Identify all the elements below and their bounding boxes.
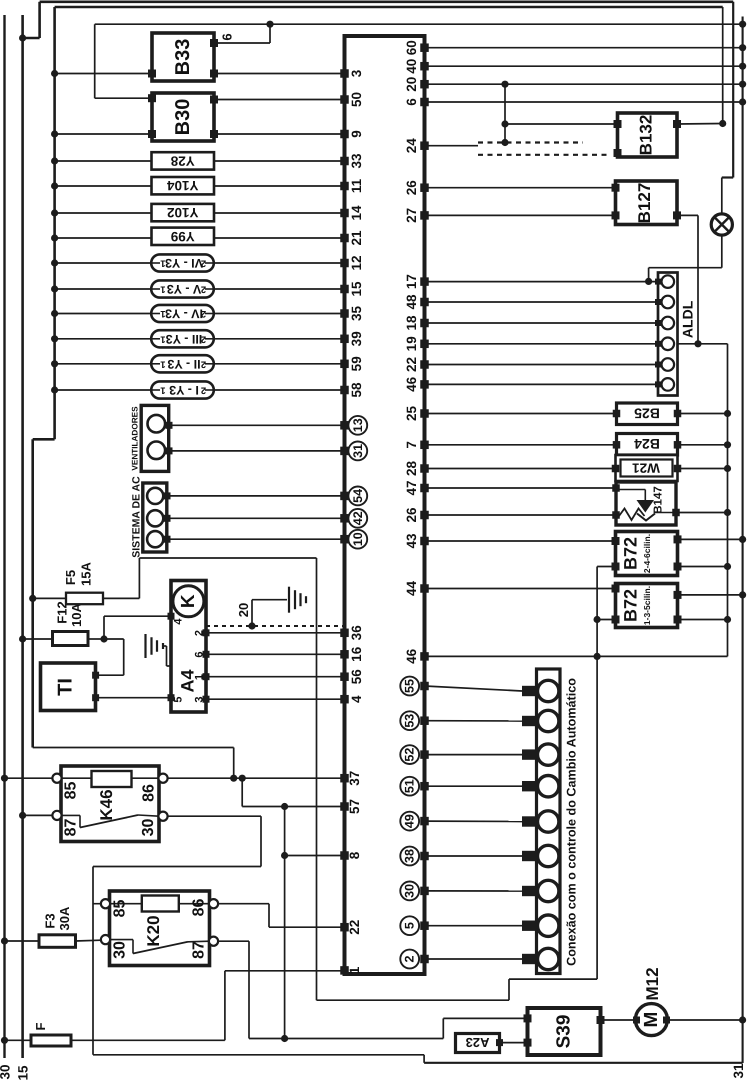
svg-text:22: 22 [347, 920, 362, 935]
svg-text:48: 48 [404, 294, 419, 310]
svg-text:Y104: Y104 [166, 178, 198, 193]
svg-text:M: M [641, 1012, 662, 1028]
svg-text:7: 7 [404, 441, 419, 449]
svg-text:K20: K20 [144, 915, 163, 946]
svg-text:53: 53 [403, 714, 417, 728]
svg-text:37: 37 [347, 771, 362, 786]
svg-text:20: 20 [404, 77, 419, 92]
svg-text:1: 1 [160, 358, 166, 369]
svg-text:51: 51 [403, 779, 417, 793]
svg-text:15A: 15A [79, 561, 94, 585]
svg-text:8: 8 [347, 851, 362, 859]
svg-text:14: 14 [349, 205, 364, 221]
svg-text:16: 16 [349, 646, 364, 662]
svg-text:B72: B72 [621, 589, 641, 622]
svg-text:44: 44 [404, 581, 419, 597]
svg-text:III - Y3: III - Y3 [166, 332, 203, 346]
svg-text:F5: F5 [63, 570, 78, 585]
svg-text:B30: B30 [172, 99, 194, 136]
svg-text:K: K [178, 594, 199, 608]
svg-text:19: 19 [404, 336, 419, 351]
svg-text:87: 87 [63, 819, 80, 837]
svg-text:47: 47 [404, 480, 419, 495]
svg-text:F3: F3 [43, 913, 58, 928]
svg-text:33: 33 [349, 153, 364, 169]
svg-text:52: 52 [403, 748, 417, 762]
svg-text:B132: B132 [637, 115, 656, 156]
svg-text:31: 31 [731, 1063, 746, 1079]
svg-text:1: 1 [160, 284, 166, 295]
svg-text:IV - Y3: IV - Y3 [165, 307, 203, 321]
svg-text:B72: B72 [621, 537, 641, 570]
svg-text:46: 46 [404, 648, 419, 664]
svg-text:15: 15 [349, 281, 364, 297]
svg-text:Conexão com o controle do Camb: Conexão com o controle do Cambio Automát… [565, 678, 579, 966]
svg-text:VENTILADORES: VENTILADORES [131, 406, 140, 471]
svg-text:13: 13 [351, 418, 365, 432]
svg-text:18: 18 [404, 315, 419, 331]
svg-text:43: 43 [404, 533, 419, 549]
svg-text:I - Y3: I - Y3 [169, 383, 199, 397]
svg-text:12: 12 [349, 255, 364, 270]
svg-text:2: 2 [201, 385, 206, 396]
svg-text:60: 60 [404, 40, 419, 55]
svg-text:3: 3 [349, 69, 364, 77]
svg-text:S39: S39 [554, 1015, 575, 1049]
svg-text:Y28: Y28 [170, 153, 195, 168]
svg-text:25: 25 [404, 406, 419, 422]
svg-text:15: 15 [16, 1065, 31, 1081]
svg-text:28: 28 [404, 461, 419, 477]
svg-text:54: 54 [351, 489, 365, 503]
svg-text:59: 59 [349, 356, 364, 371]
svg-text:30: 30 [0, 1064, 13, 1079]
svg-text:2: 2 [403, 955, 417, 962]
svg-text:55: 55 [403, 679, 417, 693]
svg-text:56: 56 [349, 669, 364, 685]
svg-text:A23: A23 [466, 1035, 490, 1050]
svg-text:TI: TI [55, 678, 77, 696]
svg-text:85: 85 [112, 900, 129, 918]
svg-text:4: 4 [349, 695, 364, 703]
svg-text:58: 58 [349, 382, 364, 398]
svg-text:39: 39 [349, 331, 364, 346]
svg-text:F: F [33, 1022, 48, 1030]
svg-text:26: 26 [404, 507, 419, 523]
svg-text:86: 86 [141, 784, 158, 802]
svg-text:M12: M12 [643, 967, 662, 1000]
svg-text:W21: W21 [632, 461, 660, 476]
svg-text:2: 2 [201, 333, 206, 344]
svg-text:B24: B24 [634, 436, 660, 452]
svg-text:2: 2 [201, 358, 206, 369]
svg-text:30: 30 [403, 884, 417, 898]
svg-text:6: 6 [404, 98, 419, 106]
svg-text:1: 1 [160, 308, 166, 319]
svg-text:20: 20 [236, 603, 251, 617]
svg-text:24: 24 [404, 138, 419, 154]
svg-text:1: 1 [347, 966, 362, 974]
svg-text:21: 21 [349, 230, 364, 246]
svg-text:B147: B147 [653, 486, 665, 514]
svg-text:1-3-5cilin.: 1-3-5cilin. [642, 586, 652, 625]
svg-text:36: 36 [349, 625, 364, 641]
svg-text:B25: B25 [634, 406, 660, 422]
svg-text:V - Y3: V - Y3 [167, 282, 202, 296]
svg-text:Y102: Y102 [167, 205, 199, 220]
svg-text:50: 50 [349, 92, 364, 107]
svg-text:SISTEMA DE AC: SISTEMA DE AC [131, 476, 143, 558]
svg-text:22: 22 [404, 357, 419, 372]
svg-text:40: 40 [404, 59, 419, 74]
svg-text:87: 87 [191, 941, 208, 959]
svg-text:9: 9 [349, 130, 364, 138]
svg-text:85: 85 [63, 782, 80, 800]
svg-text:1: 1 [160, 258, 166, 269]
svg-text:30: 30 [112, 941, 129, 959]
svg-text:27: 27 [404, 208, 419, 223]
svg-text:10A: 10A [69, 602, 84, 626]
svg-text:86: 86 [191, 899, 208, 917]
svg-text:49: 49 [403, 814, 417, 828]
svg-text:2: 2 [201, 284, 206, 295]
svg-text:11: 11 [349, 178, 364, 193]
svg-text:10: 10 [351, 532, 365, 546]
svg-text:30A: 30A [57, 906, 72, 930]
svg-text:2-4-6cilin.: 2-4-6cilin. [642, 534, 652, 573]
svg-text:1: 1 [160, 385, 166, 396]
svg-text:B127: B127 [635, 183, 654, 224]
svg-text:B33: B33 [172, 39, 194, 76]
svg-text:K46: K46 [97, 789, 116, 820]
svg-text:VI - Y3: VI - Y3 [165, 256, 203, 270]
svg-text:2: 2 [201, 308, 206, 319]
svg-text:5: 5 [403, 922, 417, 929]
svg-text:30: 30 [140, 819, 157, 837]
svg-text:35: 35 [349, 306, 364, 322]
svg-text:38: 38 [403, 849, 417, 863]
svg-text:57: 57 [347, 799, 362, 814]
svg-text:46: 46 [404, 376, 419, 392]
svg-text:6: 6 [220, 33, 235, 40]
svg-text:17: 17 [404, 274, 419, 289]
svg-text:26: 26 [404, 180, 419, 196]
svg-text:Y99: Y99 [171, 229, 195, 244]
svg-text:II - Y3: II - Y3 [167, 357, 200, 371]
svg-text:1: 1 [160, 333, 166, 344]
svg-text:ALDL: ALDL [680, 300, 696, 338]
svg-text:31: 31 [351, 444, 365, 458]
svg-text:2: 2 [201, 258, 206, 269]
svg-text:42: 42 [351, 511, 365, 525]
